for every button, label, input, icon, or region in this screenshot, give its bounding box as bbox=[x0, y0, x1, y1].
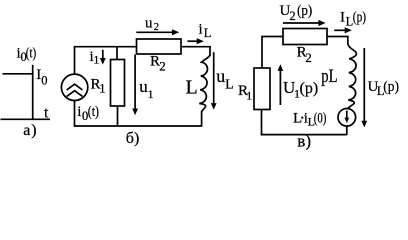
arrow uL (b) line bbox=[213, 52, 215, 104]
current source chevron 1 bbox=[67, 84, 83, 90]
graph a) I0 level line bbox=[3, 73, 33, 75]
svg-text:L: L bbox=[293, 110, 302, 126]
arrow iL (b) line bbox=[187, 40, 198, 42]
wire: v right rail top bbox=[347, 37, 349, 45]
svg-text:i: i bbox=[77, 104, 81, 120]
svg-text:(p): (p) bbox=[353, 9, 366, 25]
arrowhead ULp down bbox=[361, 121, 367, 128]
svg-text:1: 1 bbox=[93, 53, 99, 67]
wire: b top rail right of R2 bbox=[181, 46, 211, 48]
voltage source circle LiL(0) bbox=[338, 109, 356, 127]
source inner arrowhead bbox=[344, 118, 349, 123]
svg-text:u: u bbox=[145, 15, 153, 31]
graph a) t axis bbox=[1, 118, 51, 120]
svg-text:в): в) bbox=[297, 132, 311, 151]
svg-text:0: 0 bbox=[41, 73, 47, 87]
svg-text:L: L bbox=[186, 76, 198, 98]
svg-text:i: i bbox=[199, 21, 203, 37]
svg-text:1: 1 bbox=[99, 82, 105, 96]
wire: b top rail left bbox=[74, 46, 137, 48]
svg-text:1: 1 bbox=[148, 87, 154, 101]
svg-text:L: L bbox=[225, 77, 234, 92]
svg-text:2: 2 bbox=[305, 50, 312, 65]
wire: v top rail left bbox=[261, 36, 283, 38]
svg-text:2: 2 bbox=[159, 58, 166, 73]
wire: v R1 lower bbox=[261, 110, 263, 136]
arrowhead uL down (b) bbox=[211, 103, 217, 110]
arrow ULp line bbox=[363, 48, 365, 122]
svg-text:1: 1 bbox=[246, 88, 252, 102]
arrowhead U1p up bbox=[278, 64, 284, 71]
source inner arrow line bbox=[346, 111, 348, 119]
svg-text:pL: pL bbox=[321, 66, 337, 87]
wire: b bottom rail bbox=[74, 125, 203, 127]
graph a) vertical axis bbox=[32, 65, 34, 120]
svg-text:(0): (0) bbox=[314, 110, 327, 126]
svg-text:(t): (t) bbox=[88, 104, 99, 120]
wire: b coil exit jog bbox=[202, 108, 205, 126]
wire: v coil to source bbox=[347, 105, 353, 109]
wire: b right rail top bbox=[209, 47, 211, 56]
resistor R1 (b) bbox=[111, 60, 125, 107]
svg-text:a: a bbox=[23, 122, 30, 139]
svg-text:(p): (p) bbox=[300, 80, 319, 97]
arrowhead i1 down bbox=[100, 58, 106, 65]
svg-text:t: t bbox=[44, 105, 49, 122]
arrowhead u1 down bbox=[132, 109, 138, 116]
wire: v bottom rail bbox=[261, 134, 347, 136]
wire: b left rail lower bbox=[74, 101, 76, 127]
svg-text:(p): (p) bbox=[297, 3, 312, 19]
inductor L coil (b) bbox=[199, 55, 210, 108]
arrow ILp line bbox=[334, 29, 346, 31]
wire: v left rail bbox=[261, 37, 263, 69]
svg-text:б): б) bbox=[126, 130, 139, 147]
inductor pL coil (v) bbox=[348, 44, 357, 105]
arrow U2p line bbox=[283, 22, 320, 24]
svg-text:(p): (p) bbox=[383, 79, 399, 95]
resistor R1 (v) bbox=[254, 68, 270, 110]
svg-text:): ) bbox=[31, 122, 36, 139]
current source circle b bbox=[61, 74, 87, 100]
arrowhead U2p right bbox=[318, 20, 325, 26]
wire: v top rail right bbox=[327, 36, 349, 38]
wire: b left rail upper bbox=[74, 47, 76, 74]
svg-text:I: I bbox=[340, 9, 345, 25]
wire: b R1 branch upper bbox=[116, 47, 118, 60]
resistor R2 (v) bbox=[283, 29, 327, 45]
resistor R2 (b) bbox=[137, 39, 182, 54]
svg-text:L: L bbox=[204, 26, 212, 40]
arrowhead ILp right bbox=[345, 27, 352, 33]
arrow u2 (b) line bbox=[136, 31, 174, 33]
arrow i1 (b) line bbox=[102, 50, 104, 60]
arrow u1 (b) line bbox=[134, 55, 136, 111]
wire: v below source bbox=[346, 126, 348, 135]
svg-text:u: u bbox=[216, 66, 225, 86]
svg-text:2: 2 bbox=[289, 9, 295, 23]
arrow U1p line bbox=[279, 70, 281, 105]
arrowhead u2 right bbox=[172, 29, 179, 35]
current source chevron 2 bbox=[67, 91, 83, 97]
wire: b R1 branch lower bbox=[117, 106, 119, 126]
arrowhead iL right (b) bbox=[197, 38, 204, 44]
svg-text:2: 2 bbox=[154, 22, 159, 33]
svg-text:(t): (t) bbox=[26, 46, 36, 62]
